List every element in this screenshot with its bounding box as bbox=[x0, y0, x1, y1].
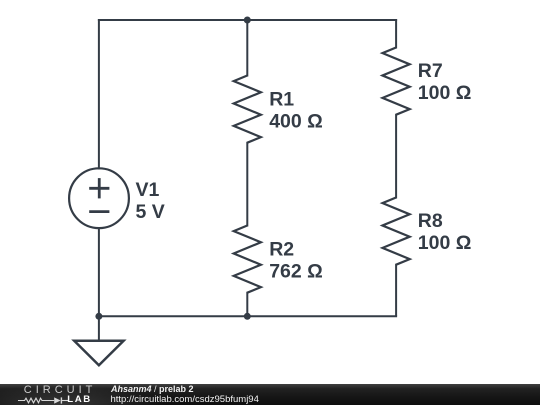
CircuitLab logo squiggle (resistor + diode) bbox=[18, 396, 70, 405]
wire left branch lower bbox=[98, 228, 100, 317]
CircuitLab logo wordmark bbox=[24, 384, 97, 396]
wire left branch upper bbox=[98, 19, 100, 170]
logo LAB text bbox=[67, 394, 92, 405]
svg-text:R1: R1 bbox=[269, 89, 294, 111]
svg-text:100 Ω: 100 Ω bbox=[418, 232, 472, 254]
wire top horizontal bbox=[98, 19, 397, 21]
wire middle branch lower bbox=[246, 292, 248, 317]
footer bar bbox=[0, 384, 540, 405]
svg-text:R8: R8 bbox=[418, 210, 443, 232]
wire ground stem bbox=[98, 316, 100, 341]
wire middle branch mid bbox=[246, 142, 248, 227]
V1 minus sign bbox=[89, 210, 109, 213]
footer line 2: url bbox=[111, 394, 259, 405]
svg-text:762 Ω: 762 Ω bbox=[269, 261, 323, 283]
voltage source V1 circle bbox=[69, 168, 129, 228]
resistor R2 bbox=[234, 226, 261, 293]
ground symbol bbox=[74, 341, 123, 366]
svg-text:R7: R7 bbox=[418, 60, 443, 82]
resistor R1 bbox=[234, 76, 261, 143]
junction node bottom-middle bbox=[244, 313, 251, 320]
resistor R7 bbox=[383, 48, 410, 115]
junction node bottom-left bbox=[95, 313, 102, 320]
wire bottom horizontal bbox=[98, 315, 397, 317]
junction node top-middle bbox=[244, 17, 251, 24]
wire middle branch upper bbox=[246, 19, 248, 77]
wire right branch upper bbox=[395, 19, 397, 49]
svg-text:5 V: 5 V bbox=[136, 201, 165, 223]
svg-text:400 Ω: 400 Ω bbox=[269, 111, 323, 133]
svg-text:V1: V1 bbox=[136, 179, 160, 201]
svg-text:R2: R2 bbox=[269, 239, 294, 261]
svg-text:100 Ω: 100 Ω bbox=[418, 82, 472, 104]
resistor R8 bbox=[383, 198, 410, 265]
V1 plus sign bbox=[89, 178, 109, 198]
wire right branch mid bbox=[395, 114, 397, 199]
footer line 1: author / title bbox=[111, 384, 194, 394]
wire right branch lower bbox=[395, 264, 397, 317]
